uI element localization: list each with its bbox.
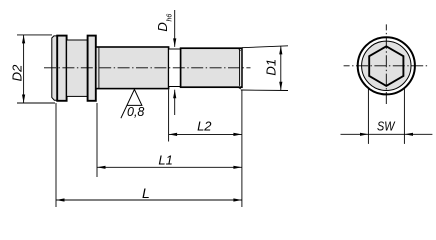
svg-text:D1: D1 bbox=[264, 59, 279, 76]
thread runout line at end face bbox=[239, 50, 241, 86]
end view vertical centerline bbox=[385, 24, 387, 105]
dimension L1: extension line left bbox=[96, 103, 98, 177]
dimension D2: extension lines bbox=[17, 34, 52, 36]
end view horizontal centerline bbox=[344, 65, 428, 67]
dimension D1: extension lines bbox=[242, 46, 288, 48]
head flange D bbox=[88, 36, 96, 101]
shaft bbox=[96, 47, 169, 89]
hex socket bbox=[369, 46, 403, 86]
dimension D h6: dimension line segments with arrows bbox=[174, 10, 176, 47]
svg-text:h6: h6 bbox=[166, 14, 173, 22]
dimension SW: dimension line with outside arrows bbox=[341, 133, 433, 135]
head flange B bbox=[57, 36, 66, 101]
dimension L1: dimension line with arrows bbox=[97, 166, 242, 168]
thread end chamfer facet (white) bbox=[240, 49, 241, 86]
dimension L2: dimension line with arrows bbox=[169, 133, 242, 135]
dimension L2: extension line left bbox=[168, 90, 170, 142]
svg-text:0,8: 0,8 bbox=[127, 105, 144, 119]
extension line right (shared L2/L1/L) bbox=[241, 90, 243, 207]
end view outer circle bbox=[358, 37, 415, 94]
dimension SW: extension lines bbox=[367, 89, 369, 144]
thread section bbox=[181, 48, 242, 87]
surface finish symbol bbox=[121, 89, 142, 118]
svg-text:D2: D2 bbox=[10, 64, 25, 81]
svg-text:SW: SW bbox=[377, 119, 396, 134]
shaft edge line bbox=[98, 48, 100, 88]
thread chamfer bottom-right bbox=[238, 87, 241, 89]
head disc A (chamfered left cap) bbox=[52, 36, 57, 100]
svg-text:L1: L1 bbox=[158, 153, 172, 168]
neck groove bbox=[169, 49, 181, 87]
dimension L: extension line left bbox=[55, 103, 57, 207]
dimension L: dimension line with arrows bbox=[56, 199, 242, 201]
end view inner circle bbox=[362, 41, 411, 90]
svg-text:D: D bbox=[155, 22, 170, 31]
head groove C bbox=[67, 40, 88, 96]
dimension D1: dimension line with arrows bbox=[280, 46, 282, 90]
centerline main view bbox=[44, 67, 251, 69]
dimension D2: dimension line with arrows bbox=[23, 35, 25, 103]
svg-text:L2: L2 bbox=[197, 119, 212, 134]
thread chamfer top-right bbox=[238, 48, 241, 51]
svg-text:L: L bbox=[142, 185, 150, 201]
